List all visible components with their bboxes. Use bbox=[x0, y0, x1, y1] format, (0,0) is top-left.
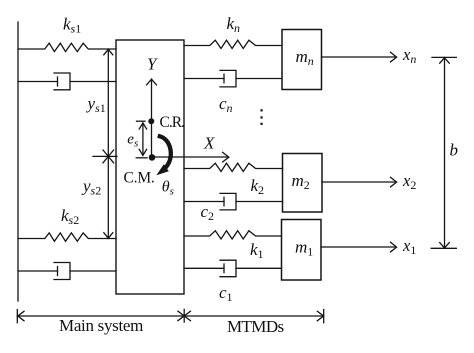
svg-text:θs: θs bbox=[162, 179, 174, 198]
svg-text:k2: k2 bbox=[251, 176, 265, 197]
svg-text:m2: m2 bbox=[292, 171, 310, 192]
svg-text:ys2: ys2 bbox=[81, 177, 101, 198]
svg-text:b: b bbox=[450, 141, 459, 160]
svg-text:Main system: Main system bbox=[59, 316, 143, 335]
svg-text:m1: m1 bbox=[295, 238, 313, 259]
svg-text:ks2: ks2 bbox=[61, 206, 79, 227]
svg-text:MTMDs: MTMDs bbox=[227, 317, 284, 336]
svg-text:x1: x1 bbox=[402, 236, 416, 257]
svg-text:Y: Y bbox=[147, 55, 158, 74]
svg-text:X: X bbox=[203, 134, 215, 153]
svg-text:mn: mn bbox=[296, 47, 314, 68]
svg-text:ys1: ys1 bbox=[86, 94, 106, 115]
svg-text:ks1: ks1 bbox=[63, 15, 81, 36]
svg-text:C.R.: C.R. bbox=[160, 114, 185, 131]
svg-text:c2: c2 bbox=[201, 202, 215, 223]
svg-text:x2: x2 bbox=[402, 171, 416, 192]
svg-text:c1: c1 bbox=[219, 283, 233, 304]
svg-text:es: es bbox=[127, 132, 138, 150]
svg-text:kn: kn bbox=[227, 14, 241, 35]
svg-text:xn: xn bbox=[402, 45, 416, 66]
svg-text:cn: cn bbox=[219, 94, 233, 115]
svg-text:k1: k1 bbox=[250, 240, 264, 261]
svg-text:C.M.: C.M. bbox=[124, 170, 155, 187]
